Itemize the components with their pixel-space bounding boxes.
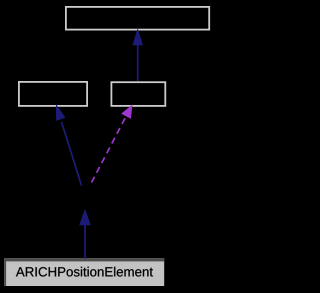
edge: hidden node to left box (solid) <box>56 104 82 186</box>
node: ARICHPositionElement (current node, gray fill) <box>4 258 164 286</box>
node: top box (empty, black text invisible) <box>66 7 209 30</box>
node: left middle box (empty) <box>19 82 87 106</box>
edge: right box to top box (solid inheritance) <box>132 28 143 81</box>
edge: bottom box to hidden node (solid) <box>79 209 91 259</box>
node: right middle box (empty) <box>111 82 165 106</box>
edge: hidden node to right box (dashed usage) <box>92 104 133 182</box>
